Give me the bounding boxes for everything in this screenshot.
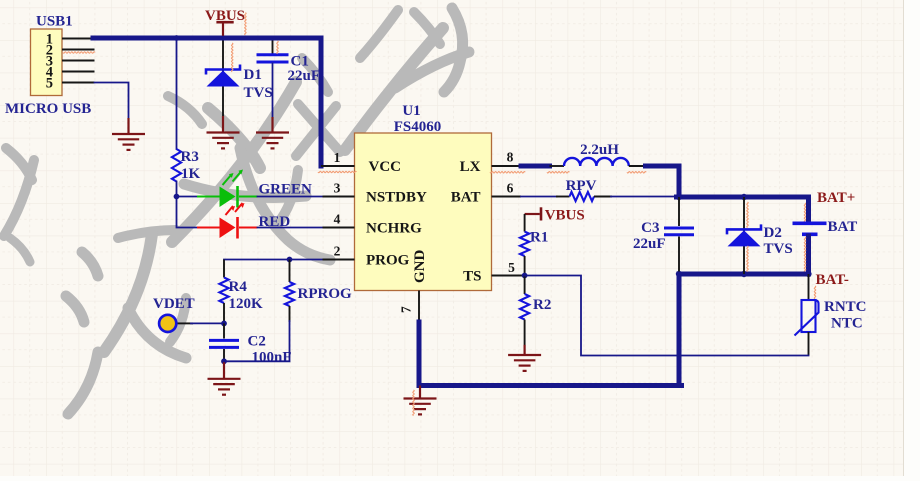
DRC marker under USB pin 2 (63, 52, 95, 54)
resistor R1 lead bottom (524, 256, 526, 276)
ground (D1) (207, 116, 240, 148)
thermistor RNTC lead top (808, 274, 810, 300)
thermistor RNTC body (802, 300, 816, 332)
svg-text:R3: R3 (181, 149, 199, 165)
resistor R2 lead top (524, 276, 526, 295)
wire TS to RNTC bottom (525, 276, 809, 356)
port VDET circle (159, 315, 176, 332)
U1 pin 3 stub (323, 196, 355, 198)
diode D2 TVS lead (743, 197, 745, 274)
wire LX thick to BAT+ rail (646, 166, 680, 197)
svg-text:22uF: 22uF (288, 68, 321, 84)
U1 pin 8 LX stub (492, 165, 522, 167)
svg-text:PROG: PROG (366, 253, 410, 269)
watermark (decorative) (4, 8, 469, 414)
junction at C2 bottom (221, 358, 227, 364)
U1 pin 5 TS stub (492, 275, 525, 277)
wire GREEN to pin3 (258, 196, 323, 198)
wire bus to R3 (176, 41, 178, 150)
capacitor C3 lead top (678, 197, 680, 226)
svg-text:USB1: USB1 (36, 14, 73, 30)
thermistor RNTC lead bottom (808, 332, 810, 356)
junction at R4/C2/VDET (221, 321, 227, 327)
diode D1 TVS symbol (206, 65, 240, 75)
svg-text:VDET: VDET (153, 296, 195, 312)
svg-text:R2: R2 (533, 297, 551, 313)
GREEN LED arrows (223, 171, 242, 185)
capacitor C2 lead bottom (223, 349, 225, 361)
svg-text:8: 8 (507, 150, 514, 165)
svg-text:GND: GND (412, 250, 428, 284)
ground (C2) (208, 361, 241, 394)
svg-text:RNTC: RNTC (824, 299, 867, 315)
svg-text:R1: R1 (530, 230, 548, 246)
wire LX thick segment left (521, 164, 550, 169)
svg-text:7: 7 (399, 306, 414, 313)
svg-text:22uF: 22uF (633, 236, 666, 252)
DRC marker at D1 (231, 43, 233, 72)
svg-text:VBUS: VBUS (545, 208, 585, 224)
svg-text:RPV: RPV (566, 178, 597, 194)
svg-text:C3: C3 (641, 220, 659, 236)
inductor lead right (629, 165, 646, 167)
junction at GREEN LED anode (174, 194, 180, 200)
svg-text:4: 4 (334, 212, 341, 227)
power port VBUS (at R1) (525, 207, 541, 220)
resistor R4 lead top (223, 260, 225, 278)
wire BAT+ rail (thick) (677, 195, 809, 200)
svg-text:TVS: TVS (764, 241, 793, 257)
wire GND pin7 (thick) (419, 322, 682, 386)
svg-text:5: 5 (46, 76, 53, 92)
U1 pin 2 stub (323, 259, 355, 261)
svg-text:100nF: 100nF (252, 350, 292, 366)
wire R3 bottom / LED column (177, 182, 198, 228)
svg-text:VBUS: VBUS (205, 8, 245, 24)
svg-text:NTC: NTC (831, 316, 863, 332)
resistor R3 (172, 149, 181, 182)
capacitor C1 lead bottom (272, 64, 274, 119)
LED RED (D red) (197, 217, 258, 239)
inductor L 2.2uH coil (564, 158, 629, 166)
USB1 pin 4 (62, 71, 95, 73)
wire BAT pin to RPV (521, 196, 557, 198)
USB1 pin 1 (62, 38, 95, 40)
capacitor C2 plates (209, 340, 239, 347)
wire BAT- to bottom rail (thick) (677, 274, 682, 386)
wire RPV to BAT+ rail (594, 196, 612, 198)
svg-text:3: 3 (334, 181, 341, 196)
U1 pin 6 BAT stub (492, 196, 522, 198)
svg-text:NSTDBY: NSTDBY (366, 190, 427, 206)
svg-text:BAT: BAT (828, 219, 858, 235)
svg-text:BAT-: BAT- (816, 272, 849, 288)
svg-text:2.2uH: 2.2uH (580, 142, 619, 158)
LED GREEN (D green) (197, 186, 258, 208)
battery BAT plates (793, 223, 827, 234)
svg-text:BAT: BAT (451, 190, 481, 206)
svg-text:6: 6 (507, 181, 514, 196)
svg-text:TS: TS (463, 269, 481, 285)
svg-text:D2: D2 (764, 225, 782, 241)
diode D2 TVS symbol (727, 224, 761, 234)
svg-text:C2: C2 (248, 334, 266, 350)
USB1 pin 2 (62, 49, 95, 51)
ground (R2) (508, 345, 541, 371)
svg-text:U1: U1 (402, 103, 420, 119)
resistor R2 lead bottom (524, 320, 526, 346)
U1 pin 1 VCC stub (321, 165, 355, 167)
resistor RPROG lead top (289, 260, 291, 283)
DRC marker at C1 (277, 41, 279, 54)
junction at RPROG top (287, 257, 293, 263)
junction C3 top (676, 194, 682, 200)
U1 pin 4 stub (323, 227, 355, 229)
svg-text:120K: 120K (229, 296, 264, 312)
svg-text:D1: D1 (244, 67, 262, 83)
svg-text:TVS: TVS (244, 85, 273, 101)
resistor R2 (520, 294, 529, 320)
svg-text:LX: LX (460, 159, 481, 175)
ground (C1) (256, 117, 289, 148)
capacitor C3 lead bottom (678, 237, 680, 275)
junction D2 top (741, 194, 747, 200)
svg-text:NCHRG: NCHRG (366, 221, 422, 237)
svg-text:2: 2 (334, 244, 341, 259)
svg-text:FS4060: FS4060 (394, 119, 442, 135)
DRC marker at VBUS (245, 13, 247, 35)
resistor R1 (520, 232, 529, 256)
ground (IC GND) (404, 386, 437, 415)
port VDET wire (177, 322, 193, 324)
wire to GREEN anode (177, 196, 198, 198)
wire BAT- rail (thick) (679, 272, 809, 277)
svg-text:VCC: VCC (369, 159, 402, 175)
USB1 pin 3 (62, 60, 95, 62)
inductor lead left (550, 165, 565, 167)
svg-text:1K: 1K (181, 166, 201, 182)
svg-text:R4: R4 (229, 279, 248, 295)
svg-text:1: 1 (334, 150, 341, 165)
connector USB1 body (31, 29, 63, 96)
wire VBUS bus (thick) (93, 38, 321, 166)
svg-text:GREEN: GREEN (259, 182, 313, 198)
svg-text:MICRO USB: MICRO USB (5, 101, 91, 117)
capacitor C2 lead top (223, 323, 225, 338)
USB1 pin 5 (62, 82, 95, 84)
battery BAT bottom lead (thick) (806, 236, 811, 274)
ground (USB) (112, 118, 145, 150)
capacitor C1 plates (257, 55, 289, 62)
capacitor C1 lead top (272, 41, 274, 54)
RED LED arrows (226, 203, 243, 215)
resistor RPV (570, 192, 595, 201)
thermistor RNTC diagonal (795, 300, 819, 336)
capacitor C3 plates (664, 228, 694, 235)
junction BAT-/battery/RNTC (805, 271, 811, 277)
resistor R1 lead top (524, 214, 526, 232)
wire PROG net (224, 259, 323, 261)
wire USB pin5 to GND (95, 83, 129, 120)
diode D1 TVS vertical lead (222, 41, 224, 118)
wire RED to pin4 (258, 227, 323, 229)
U1 pin 7 GND stub (418, 291, 420, 323)
svg-text:5: 5 (508, 260, 515, 275)
resistor RPROG (285, 282, 294, 306)
power port VBUS (top) (216, 22, 233, 36)
op-amp/IC U1 FS4060 body (355, 133, 492, 291)
svg-text:RPROG: RPROG (298, 286, 352, 302)
svg-text:BAT+: BAT+ (817, 190, 855, 206)
junction on bus at R3 (174, 35, 180, 41)
battery BAT top lead (thick) (806, 197, 811, 222)
resistor R4 (219, 278, 228, 304)
junction C3 bottom (676, 271, 682, 277)
junction D2 bottom (741, 271, 747, 277)
resistor RPROG lead bottom + wire to C2 node (289, 306, 291, 322)
junction TS node (522, 273, 528, 279)
resistor R4 lead bottom (223, 303, 225, 323)
